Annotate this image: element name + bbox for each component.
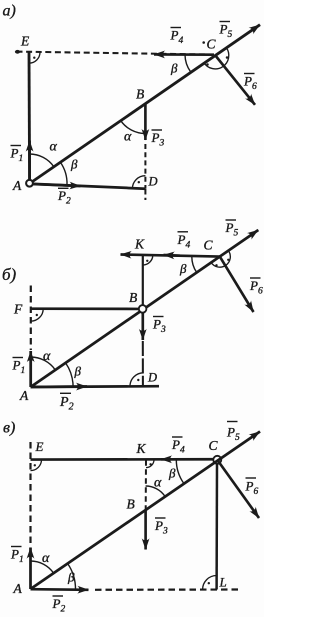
vector label P1	[10, 547, 24, 566]
right-angle arc at D	[130, 373, 144, 387]
angle beta arc at C	[192, 257, 197, 273]
vector label P3	[151, 130, 165, 149]
right-angle arc at C	[204, 48, 229, 69]
wire KB vertical	[142, 255, 144, 305]
right-angle dot right at C	[227, 259, 229, 261]
vector label P2	[59, 393, 74, 412]
svg-text:A: A	[19, 388, 29, 403]
svg-text:α: α	[154, 476, 162, 491]
vector label P4	[170, 28, 184, 47]
wire EC dashed line of action	[17, 52, 215, 55]
wire below D dashed	[144, 189, 146, 200]
right-angle arc at E	[29, 52, 40, 63]
svg-text:C: C	[204, 238, 214, 253]
vector label P2	[57, 188, 71, 207]
wire KB dashed vertical	[145, 460, 147, 509]
right-angle dot at F	[36, 314, 38, 316]
svg-text:B: B	[127, 497, 135, 512]
vector P1	[29, 548, 32, 590]
vector label P3	[154, 518, 168, 537]
svg-text:F: F	[13, 302, 23, 317]
angle beta arc at C	[176, 460, 183, 483]
vector P3	[144, 104, 147, 141]
svg-text:β: β	[179, 261, 187, 276]
svg-text:в): в)	[3, 420, 15, 437]
vector P3	[144, 510, 147, 550]
svg-text:L: L	[219, 575, 227, 590]
right-angle arc at E	[31, 460, 42, 471]
vector label P5	[226, 422, 240, 444]
wire AD bottom	[30, 184, 146, 189]
wire AE dashed line of action	[29, 442, 31, 546]
right-angle dot at D	[137, 379, 139, 381]
svg-text:D: D	[148, 175, 158, 189]
vector P2	[30, 184, 81, 186]
svg-text:K: K	[134, 237, 145, 252]
vector label P6	[243, 74, 257, 93]
svg-text:β: β	[168, 466, 176, 481]
right-angle arc at K	[143, 255, 153, 265]
right-angle arc at D	[132, 176, 145, 189]
angle beta arc at A	[65, 363, 73, 387]
angle alpha arc at A	[31, 561, 54, 573]
svg-text:β: β	[70, 157, 78, 172]
right-angle dot at K	[146, 260, 148, 262]
right-angle dot at L	[208, 582, 210, 584]
right-angle arc at F	[31, 309, 44, 322]
vector label P5	[219, 22, 233, 41]
wire BD vertical	[142, 341, 144, 386]
vector P6	[217, 460, 259, 518]
angle alpha arc at B	[146, 486, 165, 496]
svg-text:β: β	[170, 61, 178, 76]
right-angle dot at E	[33, 57, 35, 59]
svg-text:C: C	[207, 37, 217, 52]
angle beta arc at A	[68, 564, 76, 590]
svg-text:A: A	[12, 178, 22, 193]
wire EC horizontal	[31, 458, 214, 461]
vector P2	[31, 385, 87, 388]
svg-text:A: A	[13, 581, 23, 596]
vector label P5	[225, 220, 239, 239]
right-angle arc at C	[211, 251, 230, 268]
vector P1	[29, 351, 32, 387]
wire BD dashed	[144, 144, 146, 189]
blob at left end of dashed line	[15, 50, 20, 54]
right-angle dot at E	[34, 464, 36, 466]
svg-text:K: K	[136, 441, 147, 456]
angle alpha arc at A	[30, 154, 54, 167]
vector label P4	[177, 232, 191, 251]
svg-text:α: α	[42, 551, 50, 566]
svg-text:β: β	[67, 570, 75, 585]
vector P4	[161, 458, 213, 461]
vector P4 arrowhead at C side	[164, 254, 181, 257]
vector P1	[28, 141, 31, 182]
wire AE vertical	[28, 52, 31, 184]
svg-text:B: B	[136, 87, 144, 102]
svg-text:α: α	[50, 140, 58, 155]
angle beta arc at A	[60, 162, 67, 185]
svg-text:E: E	[35, 439, 44, 454]
wire line of action of P1 dashed above arrow	[30, 286, 32, 351]
node B pivot circle	[139, 305, 147, 313]
vector P3	[141, 313, 144, 341]
wire AL dashed bottom	[95, 588, 241, 590]
vector P4	[154, 53, 214, 56]
svg-text:α: α	[124, 130, 132, 145]
svg-text:а): а)	[3, 3, 16, 20]
wire AC diagonal with vector P5 arrowhead	[31, 432, 261, 590]
right-angle dot right at C	[226, 56, 229, 59]
wire AC diagonal with vector P5 arrowhead	[31, 230, 259, 387]
angle alpha arc at A	[31, 357, 56, 370]
svg-text:D: D	[147, 371, 157, 385]
vector label P6	[249, 278, 263, 297]
angle beta arc at C	[185, 55, 191, 72]
wire KC with far left arrowhead	[121, 255, 220, 257]
right-angle arc at L	[203, 576, 217, 590]
node A pivot circle	[26, 180, 33, 187]
vector P6	[215, 55, 255, 105]
svg-text:E: E	[20, 34, 30, 49]
vector label P6	[245, 478, 259, 497]
wire CL vertical	[215, 464, 218, 590]
right-angle dot at D	[138, 181, 140, 183]
svg-text:α: α	[43, 349, 51, 364]
vector label P4	[171, 437, 185, 456]
wire AC diagonal with vector P5 arrowhead	[30, 25, 260, 184]
wire AD bottom	[31, 385, 159, 388]
angle alpha arc at B	[121, 120, 146, 133]
svg-text:B: B	[129, 290, 137, 305]
wire FB horizontal	[31, 307, 139, 310]
vector P2	[31, 588, 89, 591]
vector label P2	[52, 596, 66, 615]
vector P6	[220, 257, 254, 312]
right-angle dot left at C	[206, 63, 209, 66]
right-angle arc at K	[146, 460, 154, 468]
svg-text:C: C	[209, 438, 219, 453]
vector label P3	[152, 317, 166, 336]
right-angle dot at K	[149, 463, 151, 465]
vector label P1	[12, 358, 26, 377]
node C pivot circle	[213, 456, 221, 464]
vector label P1	[10, 146, 24, 165]
svg-text:б): б)	[2, 265, 17, 284]
right-angle dot left at C	[215, 264, 217, 266]
svg-text:β: β	[74, 364, 82, 379]
